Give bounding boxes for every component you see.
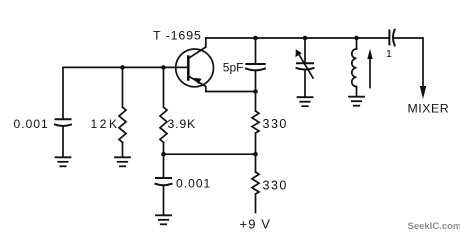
wire R3 bottom lead — [255, 133, 257, 154]
capacitor C5 "1" right plate — [393, 30, 395, 46]
wire left branch vertical — [62, 67, 64, 118]
wire 12K top lead — [122, 67, 124, 107]
ground for C2 — [156, 215, 171, 224]
capacitor C5 "1" left plate — [388, 31, 390, 45]
node junction rail-inductor — [354, 36, 359, 41]
ground for C4 — [298, 97, 313, 106]
wire 5pF top lead — [255, 38, 257, 64]
svg-text:+9 V: +9 V — [240, 216, 272, 231]
wire R4 top lead — [255, 154, 257, 172]
svg-text:0.001: 0.001 — [14, 117, 49, 131]
wire varcap top lead — [304, 38, 306, 63]
wire C2 top lead — [163, 154, 165, 177]
svg-text:1: 1 — [386, 48, 392, 60]
transistor Q1 collector line — [188, 38, 206, 59]
inductor L1 — [352, 49, 357, 87]
capacitor C3 5pF plates — [246, 63, 264, 65]
svg-text:3.9K: 3.9K — [168, 117, 197, 131]
wire rail to mixer — [394, 38, 423, 87]
inductor L1 adjust arrow — [369, 59, 371, 88]
wire inductor to ground — [356, 87, 358, 97]
wire 5pF bottom lead — [255, 70, 257, 91]
svg-text:330: 330 — [263, 179, 288, 193]
ground for C1 — [56, 157, 71, 166]
wire C1 to ground — [62, 126, 64, 157]
svg-text:MIXER: MIXER — [408, 102, 450, 116]
wire mid horizontal — [164, 153, 256, 155]
ground for L1 — [349, 97, 364, 106]
wire 3.9K top lead — [163, 67, 165, 107]
variable capacitor C4 arrow — [299, 54, 314, 78]
wire top rail — [206, 37, 389, 39]
resistor R3 330 — [252, 111, 259, 133]
node junction rail-varcap — [303, 36, 308, 41]
transistor Q1 emitter line — [188, 76, 255, 92]
capacitor C2 0.001 plates — [156, 177, 171, 179]
wire base bus — [63, 66, 188, 68]
node junction base-3.9K — [161, 65, 166, 70]
wire varcap to ground — [304, 70, 306, 97]
wire R4 to +9V — [255, 194, 257, 213]
capacitor C1 0.001 plates — [56, 118, 71, 120]
svg-text:330: 330 — [263, 117, 288, 131]
svg-text:0.001: 0.001 — [176, 177, 211, 191]
wire 3.9K bottom lead — [163, 143, 165, 155]
svg-text:T -1695: T -1695 — [153, 29, 202, 43]
resistor R3 330 upper leads — [255, 92, 257, 112]
node junction emitter-5pF-330 — [253, 89, 258, 94]
svg-text:5pF: 5pF — [223, 61, 244, 75]
transistor Q1 base bar — [187, 57, 190, 80]
node junction base-12K — [120, 65, 125, 70]
variable capacitor C4 plates — [297, 62, 313, 64]
svg-text:SeekIC.com: SeekIC.com — [408, 221, 460, 232]
wire inductor top lead — [356, 38, 358, 49]
resistor R1 12K — [119, 107, 126, 142]
resistor R4 330 — [252, 172, 259, 194]
svg-text:12K: 12K — [91, 117, 120, 131]
transistor Q1 circle — [176, 49, 214, 87]
mixer output arrowhead — [420, 86, 427, 99]
node junction rail-5pF — [253, 36, 258, 41]
wire 12K bottom lead — [122, 143, 124, 157]
node junction 3.9K-C2 — [161, 152, 166, 157]
transistor Q1 emitter arrow (PNP) — [194, 78, 202, 84]
node junction mid-330 — [253, 152, 258, 157]
resistor R2 3.9K — [160, 107, 167, 142]
wire C2 to ground — [163, 185, 165, 214]
ground for R1 — [115, 157, 130, 166]
